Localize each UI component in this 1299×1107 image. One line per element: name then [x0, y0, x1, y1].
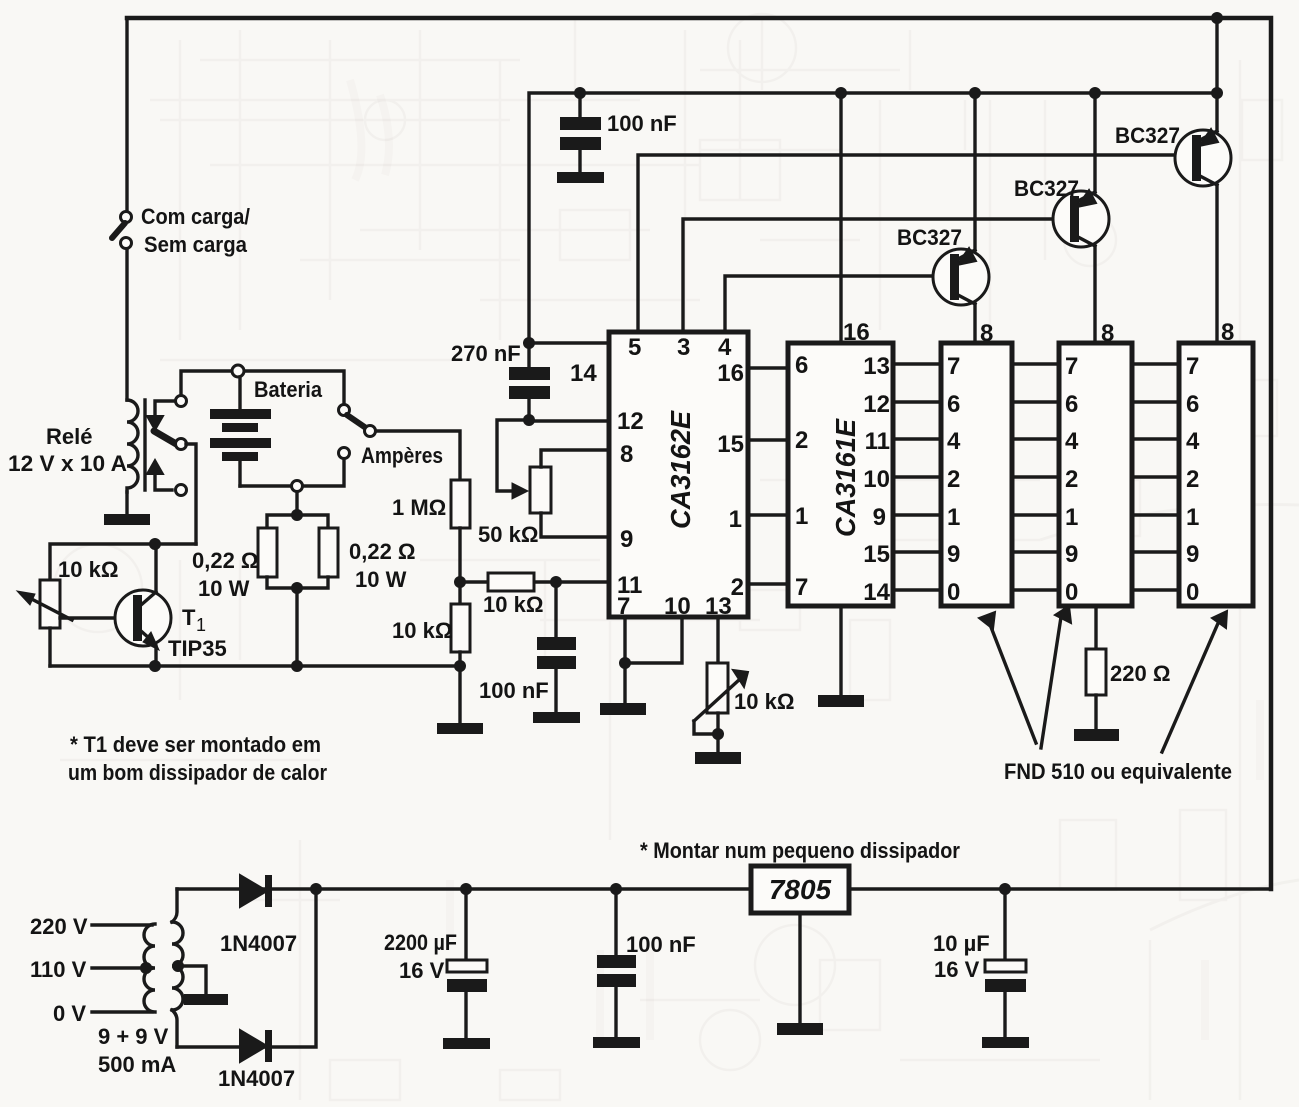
display DISP3 FND510 [1179, 343, 1253, 606]
node: primary 110V tap [140, 962, 152, 974]
display DISP1 FND510 [941, 343, 1012, 606]
svg-text:220 V: 220 V [30, 914, 88, 939]
potentiometer 10 kOhm (base drive) [17, 557, 118, 628]
relay plunger arrow up [155, 473, 172, 490]
wire: 0.22 bus down to emitter rail [295, 588, 298, 666]
wire: 3162 pin2 to 3161 pin7 [748, 582, 788, 585]
wire: 50k bottom to pin 9 [541, 513, 609, 537]
svg-text:0,22 Ω: 0,22 Ω [349, 539, 416, 564]
svg-text:14: 14 [570, 360, 597, 387]
wire: unregulated rail [177, 887, 749, 890]
svg-text:* T1 deve ser montado em: * T1 deve ser montado em [70, 732, 321, 757]
svg-text:100 nF: 100 nF [479, 678, 549, 703]
node on bus at BC327 Q1 [969, 87, 981, 99]
svg-text:1: 1 [947, 504, 960, 531]
svg-text:10 W: 10 W [198, 576, 250, 601]
ground below top 100 nF [557, 172, 604, 183]
node: emitter rail mid [291, 660, 303, 672]
node: emitter rail left [149, 660, 161, 672]
node: 10uF tap [999, 883, 1011, 895]
node on 0.22 top bus [291, 509, 303, 521]
svg-text:2: 2 [795, 427, 808, 454]
svg-text:9 + 9 V: 9 + 9 V [98, 1024, 169, 1049]
ground below 220R [1074, 729, 1119, 741]
svg-text:Bateria: Bateria [254, 377, 323, 402]
resistor 1 MOhm [392, 480, 470, 528]
svg-text:9: 9 [947, 541, 960, 568]
wire: relay coil to ground [125, 492, 128, 514]
switch Com carga / Sem carga [112, 204, 250, 257]
wire: pin 5 to Q3 base [638, 155, 1188, 332]
resistor 0,22 ohm 10 W (left) [192, 528, 277, 601]
svg-text:1: 1 [1186, 504, 1199, 531]
svg-text:8: 8 [1101, 320, 1114, 347]
wire: 270nF to pin 14 [529, 341, 609, 344]
transistor Q1 BC327 [897, 93, 989, 343]
svg-text:14: 14 [863, 579, 890, 606]
resistor 10 kOhm (input series) [466, 573, 609, 617]
transistor Q2 BC327 [1014, 93, 1109, 343]
wire: 220R to ground [1094, 695, 1097, 729]
node: 2200uF tap [460, 883, 472, 895]
svg-text:7: 7 [947, 353, 960, 380]
svg-text:6: 6 [795, 352, 808, 379]
svg-text:6: 6 [947, 391, 960, 418]
svg-text:8: 8 [620, 441, 633, 468]
capacitor 2200 uF 16 V [384, 889, 487, 1038]
node on 0.22 bottom bus [291, 582, 303, 594]
relay contact NO (top) [176, 396, 187, 407]
svg-text:9: 9 [1186, 541, 1199, 568]
wire: 110V stub [92, 966, 142, 969]
svg-text:4: 4 [1065, 428, 1079, 455]
switch Amperes: top contact [339, 405, 350, 416]
svg-text:16: 16 [717, 360, 744, 387]
transistor Q3 BC327 [1115, 18, 1231, 343]
0.22 ohm top bus [267, 515, 328, 528]
node: pin12 node [523, 414, 535, 426]
wire: pot bottom to ground [716, 713, 719, 752]
svg-text:2: 2 [1186, 466, 1199, 493]
svg-text:11: 11 [865, 428, 890, 455]
resistor 10 kOhm (divider) [392, 604, 470, 652]
svg-text:8: 8 [980, 320, 993, 347]
0.22 ohm bottom bus [267, 577, 328, 588]
wire: 1M to 10k junction [458, 528, 461, 604]
potentiometer 10 kOhm (gain adjust) [694, 663, 794, 734]
switch Amperes: pole [365, 426, 376, 437]
display DISP2 FND510 [1059, 343, 1132, 606]
svg-text:12: 12 [617, 408, 644, 435]
regulator 7805 [751, 866, 849, 913]
ground below relay [104, 514, 150, 525]
svg-text:500 mA: 500 mA [98, 1052, 176, 1077]
svg-text:9: 9 [620, 526, 633, 553]
svg-text:4: 4 [947, 428, 961, 455]
svg-text:2: 2 [731, 574, 744, 601]
wire: pot wiper to T1 base [60, 616, 133, 619]
node on bus at 100nF [574, 87, 586, 99]
wire: shunt tap down to 0.22 bus [295, 492, 298, 515]
wires: segment bus display 1 to display 2 [1012, 364, 1059, 590]
svg-text:110 V: 110 V [30, 957, 87, 982]
svg-text:9: 9 [873, 504, 886, 531]
wire: pin 4 to Q1 base [725, 276, 947, 332]
arrow to display 1 [989, 622, 1036, 743]
wire: CA3161E ground lead [839, 606, 842, 695]
node: divider junction [454, 576, 466, 588]
svg-text:0: 0 [1186, 579, 1199, 606]
relay plunger arrow down [155, 401, 176, 417]
svg-text:0,22 Ω: 0,22 Ω [192, 548, 259, 573]
battery bottom bus [240, 459, 344, 486]
svg-text:7: 7 [1065, 353, 1078, 380]
wire: zero-adjust wiper feed [497, 420, 529, 491]
svg-text:0: 0 [947, 579, 960, 606]
resistor 220 Ohm [1086, 649, 1170, 695]
svg-text:0 V: 0 V [53, 1001, 86, 1026]
resistor 0,22 ohm 10 W (right) [319, 528, 416, 592]
ground below input 100 nF [533, 712, 580, 723]
svg-text:10 kΩ: 10 kΩ [392, 618, 452, 643]
capacitor 270 nF [451, 341, 550, 420]
svg-text:4: 4 [1186, 428, 1200, 455]
wire: collector rail to pot top [50, 544, 196, 580]
svg-text:12: 12 [863, 391, 890, 418]
wire: 5V rail from 7805 to frame [851, 887, 1271, 890]
svg-text:10 kΩ: 10 kΩ [734, 689, 794, 714]
svg-text:* Montar num pequeno dissipado: * Montar num pequeno dissipador [640, 838, 960, 863]
wiper arrowhead into 50k pot [512, 483, 528, 499]
battery clip node [232, 365, 244, 377]
ground below psu 100nF [593, 1037, 640, 1048]
wires: segment bus 3161 to display 1 [893, 364, 941, 590]
node on bus at CA3161E pin16 [835, 87, 847, 99]
node: pin14 node [523, 337, 535, 349]
svg-text:100 nF: 100 nF [607, 111, 677, 136]
wire: rectifier bottom rail [177, 889, 316, 1047]
arrow to display 3 [1162, 621, 1219, 752]
svg-text:BC327: BC327 [1014, 176, 1079, 201]
wire: relay common to T1 collector node [186, 444, 196, 544]
transistor T1 TIP35 [115, 544, 227, 666]
relay contact common (mid) [176, 439, 187, 450]
svg-text:5: 5 [628, 334, 641, 361]
wire: bottom emitter rail [50, 664, 460, 667]
svg-text:um bom dissipador de calor: um bom dissipador de calor [68, 760, 327, 785]
svg-text:1: 1 [196, 615, 206, 635]
svg-text:1: 1 [795, 503, 808, 530]
wire: pot bottom to emitter rail [48, 628, 51, 666]
svg-text:1N4007: 1N4007 [220, 931, 297, 956]
svg-text:1: 1 [729, 506, 742, 533]
svg-text:2200 µF: 2200 µF [384, 930, 457, 955]
wire: pin 13 down to gain pot [716, 617, 719, 663]
svg-text:TIP35: TIP35 [168, 636, 227, 661]
shunt tap node circle [292, 481, 303, 492]
wire: 3162 pin16 to 3161 pin6 [748, 366, 788, 369]
wire: pin 10 down and tie to pin 7 [625, 617, 682, 703]
capacitor 100 nF (top decoupling) [560, 93, 677, 172]
svg-text:1 MΩ: 1 MΩ [392, 495, 446, 520]
node: frame/collector junction top right [1211, 12, 1223, 24]
node: pins 7/10 junction [619, 657, 631, 669]
svg-text:T: T [182, 605, 196, 630]
node: rectifier output [310, 883, 322, 895]
diode D1 1N4007 (top) [220, 875, 297, 956]
wire: 3162 pin1 to 3161 pin1 [748, 513, 788, 516]
svg-text:7: 7 [795, 574, 808, 601]
svg-text:FND 510 ou equivalente: FND 510 ou equivalente [1004, 759, 1232, 784]
svg-text:10: 10 [863, 466, 890, 493]
switch Amperes: blade [347, 415, 366, 428]
node on bus at BC327 Q3 [1211, 87, 1223, 99]
potentiometer 50 kOhm [478, 467, 551, 547]
svg-text:9: 9 [1065, 541, 1078, 568]
svg-text:12 V x 10 A: 12 V x 10 A [8, 451, 127, 476]
node: pin11/cap junction [550, 576, 562, 588]
wire: pin 3 to Q2 base [683, 219, 1067, 332]
svg-text:270 nF: 270 nF [451, 341, 521, 366]
wire: switch feed from frame [125, 18, 128, 212]
node: rail right end [454, 660, 466, 672]
node: secondary center tap [172, 960, 184, 972]
wire: switch to relay coil [125, 249, 128, 400]
wire: secondary bottom riser [172, 1010, 177, 1047]
svg-text:2: 2 [947, 466, 960, 493]
wires: segment bus display 2 to display 3 [1132, 364, 1179, 590]
node: pot bottom [712, 728, 724, 740]
svg-text:16 V: 16 V [934, 957, 980, 982]
capacitor 100 nF (input filter) [479, 582, 576, 712]
svg-text:8: 8 [1221, 319, 1234, 346]
wire: 10k bottom to rail and ground [458, 652, 461, 723]
svg-text:10 kΩ: 10 kΩ [58, 557, 118, 582]
svg-text:100 nF: 100 nF [626, 932, 696, 957]
svg-text:BC327: BC327 [1115, 123, 1180, 148]
svg-text:Sem carga: Sem carga [144, 232, 248, 257]
svg-text:7805: 7805 [769, 874, 832, 905]
wire: pole to 1M resistor [376, 431, 460, 480]
svg-text:10: 10 [664, 593, 691, 620]
ground below gain pot [695, 752, 741, 764]
svg-text:CA3161E: CA3161E [830, 418, 861, 537]
svg-text:2: 2 [1065, 466, 1078, 493]
svg-text:16 V: 16 V [399, 958, 445, 983]
svg-text:6: 6 [1065, 391, 1078, 418]
wire: CA3161E pin 16 to +V bus [839, 93, 842, 343]
svg-text:CA3162E: CA3162E [665, 410, 696, 529]
node on bus at BC327 Q2 [1089, 87, 1101, 99]
op-amp U1 CA3162E box [609, 332, 748, 620]
transformer TR1 secondary [172, 922, 183, 1010]
wire: 220V stub [92, 923, 152, 926]
relay K1 12V x 10A : coil [8, 400, 145, 492]
svg-text:0: 0 [1065, 579, 1078, 606]
svg-text:1: 1 [1065, 504, 1078, 531]
wire: 0V stub [92, 1010, 152, 1013]
svg-text:13: 13 [863, 353, 890, 380]
ground below CA3161E [818, 695, 864, 707]
wire: pin 7 down [623, 617, 626, 663]
switch Amperes: lower contact [339, 448, 350, 459]
svg-text:1N4007: 1N4007 [218, 1066, 295, 1091]
svg-text:15: 15 [863, 541, 890, 568]
battery top bus [181, 371, 344, 405]
svg-text:Relé: Relé [46, 424, 92, 449]
wire: 50k top to pin 8 [541, 450, 609, 467]
svg-text:220 Ω: 220 Ω [1110, 661, 1170, 686]
transformer TR1 primary [144, 924, 155, 1012]
wire: 7805 ground lead [798, 915, 801, 1023]
ground below divider [437, 723, 483, 734]
wire: center tap to ground [178, 966, 206, 994]
wire: 3162 pin15 to 3161 pin2 [748, 438, 788, 441]
battery Bateria [210, 377, 323, 486]
svg-text:7: 7 [1186, 353, 1199, 380]
svg-text:6: 6 [1186, 391, 1199, 418]
diode D2 1N4007 (bottom) [218, 1030, 295, 1091]
relay contact NC (bottom) [176, 485, 187, 496]
svg-text:Com carga/: Com carga/ [141, 204, 250, 229]
wire: display 2 common to 220R [1094, 606, 1097, 649]
ground of center tap [184, 994, 228, 1005]
wire: outer frame top + right border down to 5V rail [127, 18, 1271, 889]
svg-text:50 kΩ: 50 kΩ [478, 522, 538, 547]
svg-text:15: 15 [717, 431, 744, 458]
ground below 2200uF [443, 1038, 490, 1049]
svg-text:BC327: BC327 [897, 225, 962, 250]
svg-text:10 W: 10 W [355, 567, 407, 592]
capacitor 10 uF 16 V [933, 889, 1026, 1037]
svg-text:Ampères: Ampères [361, 443, 443, 468]
svg-text:10 µF: 10 µF [933, 931, 990, 956]
ground below pins 7/10 [600, 703, 646, 715]
ground below 10uF [982, 1037, 1029, 1048]
wire: secondary top riser [172, 889, 177, 922]
wire: node to pin 12 [529, 419, 609, 422]
arrow to display 2 [1041, 617, 1061, 748]
op-amp U2 CA3161E box [788, 343, 893, 606]
svg-text:4: 4 [718, 334, 732, 361]
ground below 7805 [777, 1023, 823, 1035]
node: T1 collector tap [149, 538, 161, 550]
wire: +V top bus [529, 93, 1217, 343]
relay contact blade [154, 431, 178, 445]
svg-text:10 kΩ: 10 kΩ [483, 592, 543, 617]
capacitor 100 nF (psu) [597, 889, 696, 1037]
node: 100nF psu tap [610, 883, 622, 895]
svg-text:3: 3 [677, 334, 690, 361]
